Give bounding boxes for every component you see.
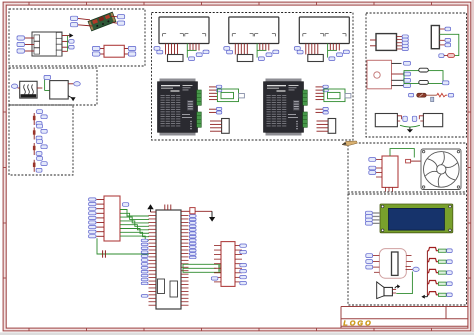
svg-text:LOGO: LOGO xyxy=(343,318,371,327)
